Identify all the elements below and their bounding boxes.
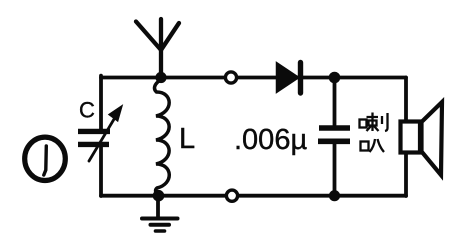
- junction diode/capacitor top: [329, 72, 341, 84]
- wire fixed capacitor upper lead: [333, 78, 337, 126]
- capacitor C3 (.006u) plates: [318, 128, 350, 141]
- wire left vertical (upper, to variable capacitor): [99, 76, 103, 129]
- inductor L: [155, 80, 170, 196]
- character la (mouth radical): [360, 120, 367, 128]
- diode D1: [277, 63, 301, 94]
- wire left vertical (lower, from variable capacitor): [99, 147, 103, 196]
- variable capacitor C arrow: [89, 107, 122, 162]
- speaker label (la-ba) drawn glyphs: [360, 113, 388, 153]
- character la (knife radical): [382, 113, 388, 131]
- character ba (mouth radical): [361, 142, 369, 151]
- speaker LS1: [401, 102, 443, 175]
- wire right vertical (top wire down to speaker): [404, 78, 408, 121]
- figure number 1 circle: [25, 137, 66, 180]
- ground: [142, 196, 178, 231]
- svg-text:.006µ: .006µ: [234, 124, 307, 156]
- wire right vertical (speaker down to bottom wire): [404, 152, 408, 196]
- junction coil/ground bottom: [153, 190, 165, 202]
- junction capacitor bottom: [329, 190, 340, 201]
- svg-text:L: L: [179, 123, 195, 155]
- variable capacitor C plates: [78, 131, 110, 144]
- character la (middle stalk): [367, 113, 379, 132]
- wire fixed capacitor lower lead: [333, 144, 337, 196]
- character ba (eight strokes): [370, 139, 385, 152]
- junction antenna/top wire: [155, 72, 166, 83]
- terminal circle top: [225, 72, 236, 83]
- wire bottom horizontal: [101, 194, 406, 198]
- antenna: [136, 19, 179, 78]
- svg-text:C: C: [79, 98, 95, 123]
- terminal circle bottom: [226, 190, 237, 201]
- wire top horizontal: [101, 76, 406, 80]
